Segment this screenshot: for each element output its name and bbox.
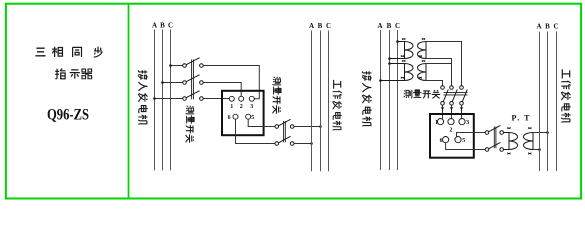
measuring switch pole 4 [275, 119, 294, 128]
svg-text:2: 2 [240, 104, 243, 110]
linkage of PT switch [494, 127, 496, 149]
wire PT secondary bottom to bus A4 [533, 149, 540, 151]
terminal 3 [249, 96, 254, 101]
wire bus B to switch 2 [163, 82, 183, 84]
bus A4 (working generator) [539, 32, 541, 172]
svg-text:B: B [160, 22, 165, 30]
PT polarity marks [507, 127, 531, 154]
node on bus C [169, 64, 172, 67]
svg-text:C: C [553, 23, 558, 31]
svg-text:A: A [309, 22, 314, 30]
terminal numbers 6 5 [440, 138, 466, 144]
node on bus A2 [310, 142, 313, 145]
node on bus B2 [319, 125, 322, 128]
terminal 1 [437, 119, 443, 125]
svg-text:B: B [318, 22, 323, 30]
svg-text:1: 1 [435, 120, 438, 126]
svg-text:2: 2 [449, 127, 452, 133]
label 工作发电机 (vertical) [333, 80, 342, 131]
svg-text:6: 6 [440, 138, 443, 144]
border frame [6, 4, 581, 199]
bus C4 [556, 32, 558, 172]
label 接入发电机 (vertical) [138, 70, 148, 124]
label 测量开关 (vertical, right group) [273, 77, 281, 114]
terminal numbers 1 2 3 [435, 120, 469, 133]
bus C [170, 30, 172, 171]
bus C3 [397, 30, 399, 170]
wire switch2 to terminal 2 [203, 83, 241, 97]
bus labels A B C [377, 22, 400, 30]
node T2 bottom on bus A3 [379, 79, 382, 82]
label 测量开关 (horizontal) [404, 90, 440, 98]
wire switch 4 to bus B2 [294, 126, 321, 128]
terminal 6 [233, 114, 238, 119]
wire terminal 6 to switch 5 [236, 119, 275, 143]
transformer T2 primary winding [381, 64, 414, 81]
wire bus C to switch 1 [171, 65, 183, 67]
bus A (incoming generator) [154, 30, 156, 171]
bus B3 [389, 30, 391, 170]
label 接入发电机 (vertical) [362, 71, 372, 126]
svg-text:3: 3 [466, 120, 469, 126]
terminal numbers 1 2 3 [230, 104, 253, 110]
bus A3 (incoming generator) [380, 30, 382, 170]
svg-text:5: 5 [462, 138, 465, 144]
linkage of right switch pair [284, 121, 286, 142]
wire bus A to switch 3 [155, 98, 183, 100]
node on bus A [153, 97, 156, 100]
linkage of knife switches [444, 93, 468, 95]
node T2 top on bus B3 [388, 62, 391, 65]
svg-text:P. T: P. T [512, 114, 531, 123]
bus B [162, 30, 164, 171]
measuring switch pole 1 [183, 58, 204, 68]
wire PT secondary top to bus B4 [533, 132, 548, 134]
label 测量开关 (vertical) [186, 106, 194, 143]
knife switch column 2 [450, 86, 458, 105]
panel separator [128, 4, 130, 199]
terminal 3 [459, 119, 465, 125]
terminal 2 [239, 96, 244, 101]
node on bus B4 [546, 131, 549, 134]
PT primary winding [504, 133, 518, 150]
wire terminal 6 to PT switch bottom [446, 143, 486, 150]
transformer T2 secondary winding [418, 64, 426, 81]
node T1 bottom on bus B3 [388, 57, 391, 60]
T2 polarity marks [401, 60, 425, 78]
label 工作发电机 (vertical) [561, 69, 571, 122]
indicator box 1 [222, 91, 264, 135]
terminal 6 [443, 137, 449, 143]
svg-text:A: A [152, 22, 157, 30]
bus C2 [328, 31, 330, 172]
bus B2 [320, 31, 322, 172]
terminal numbers 6 5 [228, 115, 255, 121]
wire switch 5 to bus A2 [294, 143, 312, 145]
wire knife 2 to terminal 2 with arrow [451, 105, 453, 119]
svg-text:A: A [536, 23, 541, 31]
wire T2 secondary bottom to knife 1 [426, 81, 443, 86]
title line 2: 指示器 [55, 69, 92, 79]
wire T1 secondary bottom joined with T2 top to knife 2 [426, 59, 452, 86]
svg-text:C: C [168, 22, 173, 30]
bus A2 (working generator) [311, 31, 313, 172]
node on bus A4 [538, 148, 541, 151]
node T1 top on bus C3 [396, 40, 399, 43]
wire knife 3 to terminal 3 with arrow [461, 105, 463, 119]
node on bus B [161, 81, 164, 84]
bus labels A B C [152, 22, 173, 30]
bus labels A B C [536, 23, 558, 31]
T1 polarity marks [401, 38, 425, 57]
bus labels A B C [309, 22, 331, 30]
indicator box 2 [430, 114, 474, 158]
svg-text:Q96-ZS: Q96-ZS [47, 107, 89, 124]
terminal 1 [229, 96, 234, 101]
svg-text:C: C [326, 22, 331, 30]
measuring switch pole 3 [183, 91, 204, 101]
measuring switch pole 2 [183, 75, 204, 85]
wire terminal 5 to switch 4 [248, 119, 275, 126]
wire switch3 to terminal 1 [203, 98, 229, 100]
bus B4 [547, 32, 549, 172]
svg-text:3: 3 [250, 104, 253, 110]
svg-text:1: 1 [230, 104, 233, 110]
wire switch1 to terminal 3 [203, 66, 259, 99]
transformer T1 secondary winding [418, 42, 426, 59]
PT switch pole top [485, 125, 503, 134]
svg-text:C: C [395, 22, 400, 30]
title line 1: 三 相 同 步 [35, 47, 102, 58]
wire terminal 5 to PT switch top [457, 133, 486, 137]
switch linkage [192, 60, 194, 100]
svg-text:6: 6 [228, 115, 231, 121]
terminal 5 [455, 137, 461, 143]
wire knife 1 to terminal 1 with arrow [442, 105, 444, 119]
knife switch column 3 [460, 86, 468, 105]
knife switch column 1 [441, 86, 449, 105]
svg-text:A: A [377, 22, 382, 30]
terminal 5 [246, 114, 251, 119]
svg-text:B: B [387, 22, 392, 30]
terminal 2 [448, 119, 454, 125]
measuring switch pole 5 [275, 136, 294, 145]
transformer T1 primary winding [390, 42, 414, 59]
wire T1 secondary top to knife 3 [426, 42, 462, 86]
PT switch pole bottom [485, 142, 503, 151]
svg-text:5: 5 [251, 115, 254, 121]
PT secondary winding [524, 133, 534, 150]
svg-text:B: B [545, 23, 550, 31]
